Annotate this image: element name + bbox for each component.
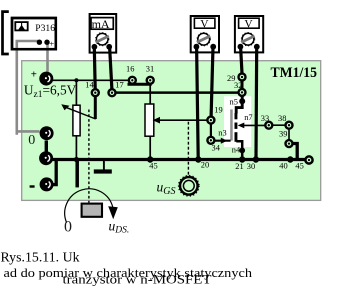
node 33 bbox=[265, 122, 272, 129]
node 34 bbox=[207, 137, 214, 144]
svg-text:Rys.15.11. Uk: Rys.15.11. Uk bbox=[1, 250, 80, 265]
svg-text:tranzystor w n-MOSFET: tranzystor w n-MOSFET bbox=[63, 272, 212, 286]
power supply P316 bbox=[12, 18, 56, 49]
svg-text:uDS.: uDS. bbox=[109, 219, 130, 236]
wire node 14 to R1 wiper bbox=[94, 96, 97, 119]
svg-text:0: 0 bbox=[28, 133, 35, 148]
node 29 bbox=[239, 74, 246, 81]
svg-text:21: 21 bbox=[235, 162, 243, 171]
board TM1/15 panel bbox=[22, 61, 321, 201]
wire mA left lead to node 14 bbox=[93, 47, 97, 89]
wire through potentiometer R1 bbox=[75, 80, 77, 158]
wire V1 left lead to bus node 20 bbox=[197, 47, 199, 158]
wire node 29 to node 32 bbox=[241, 81, 244, 89]
label - bbox=[30, 185, 35, 187]
svg-text:19: 19 bbox=[214, 105, 222, 114]
shaft dashed coupling R2 bbox=[187, 122, 189, 175]
svg-text:20: 20 bbox=[201, 161, 209, 170]
potentiometer R2 body bbox=[145, 104, 154, 136]
svg-text:17: 17 bbox=[115, 80, 123, 89]
MOSFET source wire to node n4 bbox=[236, 141, 242, 157]
node 31 bbox=[147, 77, 154, 84]
wire node 33 to node 38 bbox=[269, 124, 289, 126]
cropped frame fragment left edge bbox=[3, 12, 9, 54]
svg-text:TM1/15: TM1/15 bbox=[271, 65, 318, 81]
svg-text:31: 31 bbox=[146, 65, 154, 74]
svg-text:mA: mA bbox=[92, 17, 110, 31]
svg-text:40: 40 bbox=[279, 161, 287, 170]
wire +6.5V supply line to node 16 bbox=[53, 79, 129, 81]
node 16 bbox=[129, 77, 136, 84]
svg-text:38: 38 bbox=[278, 114, 286, 123]
R1 wiper arrow bbox=[65, 107, 96, 119]
wire terminal - to bus bbox=[53, 161, 56, 185]
shaft dashed coupling R1 bbox=[88, 110, 90, 203]
wire V2 left lead to node 29 bbox=[241, 47, 242, 73]
wire gray from P316 left terminal to 0 terminal bbox=[17, 41, 40, 135]
svg-text:n3: n3 bbox=[218, 129, 226, 138]
ground bus wire bbox=[41, 158, 305, 161]
wire V1 right lead to node 19 bbox=[211, 47, 213, 116]
node 19 bbox=[207, 117, 214, 124]
svg-text:+: + bbox=[31, 69, 37, 81]
voltmeter V1 bbox=[191, 16, 219, 52]
terminal bus left bbox=[39, 151, 53, 165]
MOSFET substrate arrow from node 33 bbox=[244, 124, 266, 126]
knob uGS top view bbox=[179, 176, 199, 196]
svg-text:34: 34 bbox=[212, 143, 221, 152]
potentiometer R1 body bbox=[73, 105, 80, 136]
power supply P316 front panel bbox=[12, 18, 56, 49]
svg-text:V: V bbox=[244, 19, 253, 31]
svg-text:16: 16 bbox=[126, 65, 134, 74]
svg-text:P316: P316 bbox=[35, 23, 55, 34]
jumper node 16 to node 31 bbox=[128, 81, 151, 84]
svg-text:n7: n7 bbox=[244, 113, 252, 122]
svg-text:0: 0 bbox=[64, 218, 72, 235]
R2 wiper arrow from node 19 bbox=[157, 119, 208, 121]
terminal + bbox=[39, 72, 53, 86]
MOSFET gate electrode bbox=[230, 109, 233, 140]
svg-text:45: 45 bbox=[149, 162, 157, 171]
terminal - bbox=[40, 177, 54, 191]
svg-text:n5: n5 bbox=[230, 98, 238, 107]
svg-text:30: 30 bbox=[247, 162, 255, 171]
MOSFET channel segments bbox=[235, 113, 238, 119]
node n3 arrow bbox=[221, 138, 227, 144]
svg-text:32: 32 bbox=[234, 81, 242, 90]
node 32 bbox=[239, 89, 246, 96]
wire node 17 to node 32 bbox=[116, 91, 238, 94]
node 17 bbox=[109, 89, 116, 96]
wire V2 right lead to bus node 30 bbox=[254, 47, 258, 158]
wire node 38 to node 39 bbox=[288, 125, 290, 140]
wire mA right lead to node 17 bbox=[110, 47, 112, 89]
svg-text:39: 39 bbox=[279, 130, 287, 139]
svg-text:45: 45 bbox=[295, 162, 303, 171]
node junction pot1 top bbox=[74, 78, 78, 82]
svg-text:n4: n4 bbox=[232, 145, 241, 154]
voltmeter V2 bbox=[235, 16, 263, 52]
knob uDS side view gray box bbox=[82, 204, 102, 217]
wire node 34 to gate n3 bbox=[214, 140, 230, 142]
svg-text:V: V bbox=[200, 19, 209, 31]
wire node 31 through potentiometer R2 to bus bbox=[149, 84, 151, 158]
svg-text:+: + bbox=[49, 39, 54, 49]
milliammeter mA bbox=[90, 14, 117, 53]
white patch behind MOSFET bbox=[224, 96, 251, 147]
wire node 32 to MOSFET drain bbox=[236, 96, 242, 114]
bus end node 45 open circle bbox=[305, 156, 312, 163]
node 38 bbox=[286, 122, 293, 129]
svg-text:14: 14 bbox=[85, 81, 94, 90]
node n5 bbox=[239, 98, 245, 104]
wire gray from P316 + terminal to + terminal bbox=[46, 43, 49, 73]
rotation arc arrow uDS bbox=[65, 189, 113, 223]
ground symbol bbox=[103, 160, 105, 170]
bus junction dots bbox=[74, 157, 79, 162]
wire stub from bus down at pot R1 column bbox=[75, 160, 79, 187]
wire terminal 0 to bus terminal bbox=[45, 141, 48, 153]
wire node 19 to node 34 bbox=[210, 124, 212, 137]
node n4 bbox=[239, 148, 245, 154]
jumper node 39 to bus node 40 bbox=[291, 144, 297, 159]
node 14 bbox=[92, 89, 99, 96]
svg-text:33: 33 bbox=[261, 114, 269, 123]
terminal 0 bbox=[40, 126, 54, 140]
node 39 bbox=[286, 140, 293, 147]
